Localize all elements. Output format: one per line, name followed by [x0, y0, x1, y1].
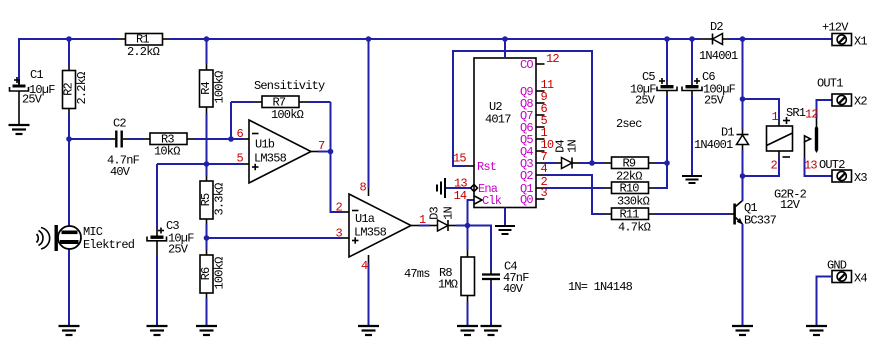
svg-text:LM358: LM358 [354, 226, 387, 240]
svg-text:U1a: U1a [355, 212, 375, 226]
ground U1a pin4 [358, 326, 379, 335]
wire U1b output pin7 [311, 151, 318, 153]
ground Q1 emitter [732, 326, 753, 335]
svg-text:40V: 40V [110, 165, 131, 179]
U2 pin Q1 [536, 187, 545, 189]
ground C1 [9, 125, 30, 134]
transistor Q1 BC337 [728, 176, 777, 326]
node rail-R4 [204, 36, 210, 42]
diode D2 [699, 20, 738, 63]
svg-text:8: 8 [360, 181, 367, 195]
svg-text:47ms: 47ms [404, 267, 430, 281]
svg-text:Elektred: Elektred [83, 238, 135, 252]
svg-text:D3: D3 [428, 207, 442, 220]
node R2/C2/MIC [66, 136, 72, 142]
wire R3 to U1b pin6 [195, 138, 244, 140]
U2 pin Q6 [536, 126, 545, 128]
terminal X1 +12V [822, 21, 867, 49]
svg-text:25V: 25V [635, 94, 656, 108]
U2 VDD wire [504, 39, 506, 58]
node rail-C5 [664, 36, 670, 42]
wire U1a output [411, 225, 419, 227]
svg-text:X3: X3 [854, 171, 867, 185]
resistor R5 [199, 164, 227, 238]
resistor R3 [143, 133, 195, 159]
svg-text:1N= 1N4148: 1N= 1N4148 [568, 280, 633, 294]
ground C4 [481, 326, 502, 335]
svg-text:15: 15 [453, 152, 466, 166]
svg-text:4: 4 [361, 259, 368, 273]
node R7 tap [228, 136, 234, 142]
resistor R1 [117, 33, 170, 60]
svg-text:1MΩ: 1MΩ [438, 278, 458, 292]
svg-text:X2: X2 [854, 95, 867, 109]
relay contact [805, 100, 834, 176]
wire top rail right segment to X1 [729, 38, 833, 40]
resistor R9 [592, 157, 667, 184]
svg-text:R6: R6 [199, 267, 213, 280]
svg-text:D2: D2 [710, 20, 723, 34]
U2 VSS wire [504, 208, 506, 226]
svg-text:Q2: Q2 [520, 169, 533, 183]
wire node to C2 [69, 138, 109, 140]
svg-text:U1b: U1b [255, 138, 275, 152]
svg-text:Rst: Rst [477, 160, 496, 174]
node D4/R9/Rst [589, 160, 595, 166]
terminal X2 OUT1 [817, 77, 867, 109]
ground U2 VSS [495, 226, 515, 234]
svg-text:10kΩ: 10kΩ [154, 145, 180, 159]
wire U1a pin4 to ground [368, 255, 370, 263]
U2 pin Q4 [536, 150, 545, 152]
svg-text:2.2kΩ: 2.2kΩ [75, 72, 89, 105]
svg-text:1N: 1N [566, 140, 580, 153]
ground R6 [196, 326, 217, 335]
wire U1a pin8 to rail [368, 188, 370, 196]
microphone MIC [37, 139, 135, 326]
svg-text:R9: R9 [623, 157, 636, 171]
wire D4 to node [580, 162, 592, 164]
node D3/Clk/R8/C4 [465, 223, 471, 229]
svg-text:BC337: BC337 [744, 214, 777, 228]
wire node up to Clk [468, 200, 475, 226]
capacitor C2 [107, 117, 140, 180]
capacitor C4 [482, 260, 529, 327]
capacitor C3 [147, 164, 194, 326]
wire Q1 to R10 [545, 187, 605, 189]
wire Q2 to R11 [545, 175, 605, 214]
svg-text:4017: 4017 [485, 113, 511, 127]
wire Q3 to D4 [545, 162, 557, 164]
U2 pin Q7 [536, 114, 545, 116]
svg-text:X4: X4 [854, 272, 867, 286]
U2 pin Ena [471, 185, 478, 192]
diode D3 [428, 207, 457, 231]
svg-text:100kΩ: 100kΩ [213, 257, 227, 290]
svg-text:CO: CO [520, 58, 533, 72]
diode D1 [694, 39, 749, 176]
svg-text:GND: GND [827, 259, 847, 273]
svg-text:13: 13 [804, 159, 817, 173]
capacitor C6 [682, 39, 736, 175]
wire D3 to node [456, 225, 468, 227]
svg-text:1N: 1N [442, 207, 456, 220]
capacitor C1 [10, 68, 56, 125]
svg-text:Clk: Clk [482, 194, 502, 208]
node rail-C6 [689, 36, 695, 42]
svg-text:100kΩ: 100kΩ [213, 71, 227, 104]
wire U1b pin5 row [157, 163, 243, 165]
resistor R10 [604, 163, 667, 209]
wire top +12V rail left segment [19, 39, 117, 84]
U2 pin Q5 [536, 138, 545, 140]
relay SR1 coil [743, 99, 807, 212]
svg-text:1N4001: 1N4001 [694, 138, 733, 152]
terminal X4 GND [817, 259, 868, 327]
resistor R6 [199, 238, 227, 326]
wire Rst loop [453, 51, 592, 166]
U2 pin Q0 [536, 198, 545, 200]
wire Ena to ground [446, 187, 470, 189]
ground MIC [59, 326, 80, 335]
svg-text:6: 6 [237, 127, 244, 141]
wire node to U1a pin3 [207, 237, 343, 239]
svg-text:Sensitivity: Sensitivity [254, 79, 325, 93]
svg-text:14: 14 [454, 189, 467, 203]
wire node right to C4 [468, 226, 492, 271]
svg-text:4.7kΩ: 4.7kΩ [618, 221, 651, 235]
node pin7/R7/U1a pin2 [328, 149, 334, 155]
op-amp U1a [349, 194, 411, 257]
ground R8 [457, 326, 478, 335]
node D1/relay pin1 [740, 96, 746, 102]
resistor R7 [231, 96, 331, 152]
svg-text:LM358: LM358 [254, 152, 287, 166]
svg-text:R4: R4 [199, 82, 213, 95]
ground C3 [147, 326, 168, 335]
svg-text:330kΩ: 330kΩ [617, 195, 650, 209]
U2 pin Rst [466, 165, 474, 167]
sound waves [37, 234, 39, 243]
svg-text:C1: C1 [30, 68, 43, 82]
svg-text:R2: R2 [62, 83, 76, 96]
node rail-U1a pin8 [366, 36, 372, 42]
svg-text:12: 12 [546, 52, 559, 66]
op-amp U1b [249, 120, 311, 183]
svg-text:3: 3 [336, 227, 343, 241]
svg-text:X1: X1 [854, 35, 867, 49]
svg-text:2sec: 2sec [616, 117, 642, 131]
node R5/R6/pin3 [204, 235, 210, 241]
node rail-R2 [66, 36, 72, 42]
resistor R4 [199, 39, 227, 164]
diode D4 [554, 140, 581, 169]
wire top rail middle segment [170, 38, 699, 40]
resistor R11 [604, 208, 728, 235]
U2 pin Q3 [536, 162, 545, 164]
svg-text:R11: R11 [620, 208, 640, 222]
svg-text:40V: 40V [503, 282, 524, 296]
svg-text:2: 2 [336, 201, 343, 215]
svg-text:2: 2 [771, 159, 778, 173]
node rail-U2 VDD [502, 36, 508, 42]
U2 pin CO [536, 63, 545, 65]
svg-text:R5: R5 [199, 193, 213, 206]
resistor R2 [62, 39, 90, 139]
svg-text:MIC: MIC [83, 225, 103, 239]
U2 pin Q2 [536, 174, 545, 176]
svg-text:25V: 25V [168, 243, 189, 257]
svg-text:+12V: +12V [822, 21, 849, 35]
node rail-D1 [740, 36, 746, 42]
svg-text:5: 5 [237, 152, 244, 166]
svg-text:OUT2: OUT2 [819, 158, 845, 172]
svg-text:2.2kΩ: 2.2kΩ [127, 45, 160, 59]
svg-text:1: 1 [772, 110, 779, 124]
svg-text:12: 12 [805, 108, 818, 122]
ground Ena (rotated) [437, 178, 445, 198]
U2 pin Q8 [536, 102, 545, 104]
terminal X3 OUT2 [819, 158, 867, 185]
svg-text:Q0: Q0 [520, 193, 533, 207]
svg-text:100kΩ: 100kΩ [271, 108, 304, 122]
svg-text:1N4001: 1N4001 [699, 49, 738, 63]
node C5/R9/R10 [664, 160, 670, 166]
node D1/relay pin2/Q1 [740, 173, 746, 179]
capacitor C5 [630, 39, 677, 163]
node R4/R5/pin5 [204, 161, 210, 167]
resistor R8 [438, 226, 475, 327]
svg-text:25V: 25V [704, 94, 725, 108]
svg-text:OUT1: OUT1 [817, 77, 843, 91]
ground C6 [682, 176, 702, 183]
svg-text:25V: 25V [22, 93, 43, 107]
svg-text:3.3kΩ: 3.3kΩ [213, 183, 227, 216]
svg-text:4: 4 [541, 162, 548, 176]
U2 pin Q9 [536, 90, 545, 92]
ground X4 [806, 326, 827, 335]
IC U2 4017 [474, 58, 536, 208]
U2 pin Clk [475, 196, 483, 204]
svg-text:R10: R10 [620, 182, 640, 196]
svg-text:12V: 12V [780, 198, 801, 212]
wire C2 to R3 [129, 138, 143, 140]
wire pin7 node down to U1a pin2 [331, 152, 343, 213]
svg-text:C2: C2 [113, 117, 126, 131]
svg-text:SR1: SR1 [786, 106, 806, 120]
